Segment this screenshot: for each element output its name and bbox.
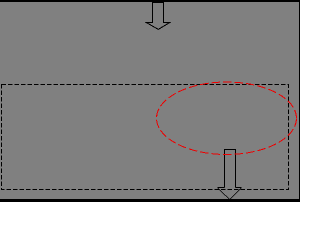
arrow bottom (hollow down-arrow over dashed line) [217,150,241,200]
right border [299,0,300,202]
dashed rectangle [2,85,289,190]
red dashed ellipse [157,82,297,155]
top border [0,0,300,2]
arrow top (hollow down-arrow from top border) [146,3,170,30]
bottom border [0,199,300,202]
